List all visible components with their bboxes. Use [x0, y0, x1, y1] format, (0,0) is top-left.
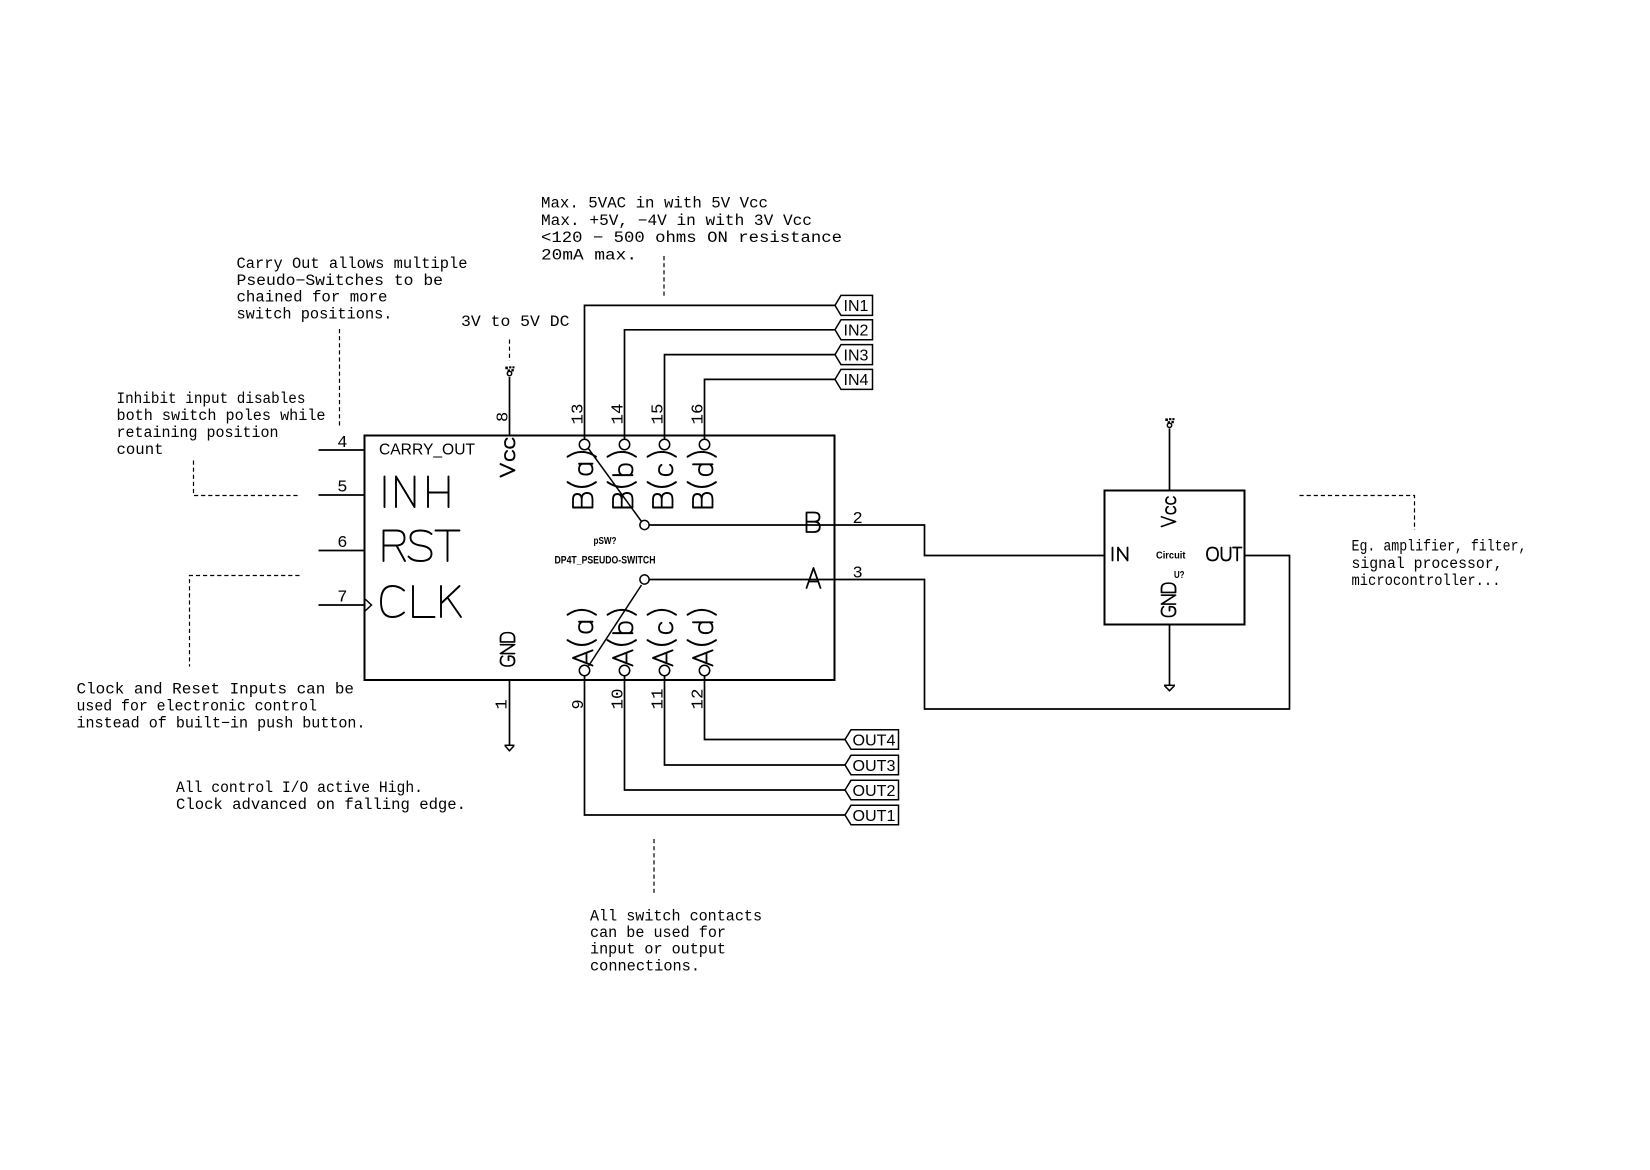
svg-text:used for electronic control: used for electronic control	[77, 698, 318, 716]
pin number 4	[337, 434, 347, 453]
svg-text:12: 12	[690, 689, 709, 710]
pin name GND (U?)	[1162, 583, 1176, 616]
switch pole B diagonal	[588, 448, 642, 522]
pin number 12	[690, 689, 709, 710]
svg-text:instead of built−in push butto: instead of built−in push button.	[77, 715, 366, 733]
svg-text:1: 1	[494, 699, 513, 709]
leader dashed line from 3V to 5V DC note to Vcc symbol	[509, 340, 511, 362]
svg-text:10: 10	[610, 689, 629, 710]
pin name B(c)	[648, 452, 677, 508]
svg-text:4: 4	[337, 434, 347, 453]
net label OUT2	[845, 780, 899, 800]
pin number 14	[610, 404, 629, 425]
svg-text:CARRY_OUT: CARRY_OUT	[379, 442, 475, 459]
value Circuit	[1156, 550, 1186, 562]
svg-text:20mA max.: 20mA max.	[541, 247, 637, 265]
svg-text:14: 14	[610, 404, 629, 425]
ground symbol (U?)	[1164, 685, 1175, 691]
pin number 8	[495, 412, 514, 422]
pin name B(a)	[568, 452, 597, 508]
svg-text:switch positions.: switch positions.	[237, 306, 393, 324]
pin name Vcc	[501, 439, 515, 477]
svg-text:Max. 5VAC in with 5V Vcc: Max. 5VAC in with 5V Vcc	[541, 195, 768, 213]
svg-text:Max. +5V, −4V in with 3V Vcc: Max. +5V, −4V in with 3V Vcc	[541, 212, 812, 230]
switch pole A contact circle	[640, 575, 649, 584]
pin name CLK	[381, 586, 461, 617]
clock input triangle	[365, 599, 372, 612]
svg-text:13: 13	[570, 404, 589, 425]
svg-text:8: 8	[495, 412, 514, 422]
reference U?	[1174, 569, 1185, 581]
svg-text:16: 16	[690, 404, 709, 425]
switch pole B contact circle	[640, 520, 649, 529]
pin name OUT	[1207, 548, 1242, 561]
reference pSW?	[594, 536, 617, 547]
note: All control IO text	[176, 779, 466, 814]
svg-text:both switch poles while: both switch poles while	[117, 407, 326, 425]
svg-text:Eg. amplifier, filter,: Eg. amplifier, filter,	[1352, 538, 1527, 556]
svg-text:3V to 5V DC: 3V to 5V DC	[461, 313, 570, 331]
svg-text:connections.: connections.	[590, 958, 700, 976]
net label IN1	[835, 295, 873, 315]
pin name A(b)	[608, 610, 637, 666]
svg-text:retaining position: retaining position	[117, 424, 279, 442]
pin 6 wire RST	[319, 550, 365, 552]
svg-text:6: 6	[337, 534, 347, 553]
note: Max ratings text	[541, 195, 842, 265]
pin 1 wire GND	[509, 680, 511, 745]
svg-text:Clock and Reset Inputs can be: Clock and Reset Inputs can be	[77, 681, 355, 699]
svg-text:Carry Out allows multiple: Carry Out allows multiple	[237, 255, 468, 273]
svg-text:signal processor,: signal processor,	[1352, 555, 1503, 573]
GND pin wire (U?)	[1169, 625, 1171, 686]
svg-text:pSW?: pSW?	[594, 536, 617, 547]
svg-text:IN3: IN3	[844, 347, 869, 364]
leader dashed line from U? box to Eg note	[1300, 496, 1415, 531]
pin name RST	[384, 531, 460, 562]
svg-text:chained for more: chained for more	[237, 289, 388, 307]
net label IN4	[835, 369, 873, 389]
pin number 2	[853, 510, 863, 529]
pin 9 wire to OUT1	[585, 675, 846, 815]
net label OUT4	[845, 730, 899, 750]
Vcc pin wire (U?)	[1169, 429, 1171, 491]
pin 13 wire to IN1	[585, 305, 836, 439]
power symbol Vcc (U?)	[1165, 418, 1174, 427]
leader dashed line from pin 6/7 to Clock and Reset note	[190, 576, 300, 667]
pin name IN	[1113, 548, 1128, 561]
svg-text:IN4: IN4	[844, 372, 869, 389]
pin 15 wire to IN3	[665, 355, 836, 440]
svg-text:U?: U?	[1174, 569, 1185, 581]
note: Eg amplifier text	[1352, 538, 1527, 591]
svg-text:input or output: input or output	[590, 941, 726, 959]
net label OUT1	[845, 805, 899, 825]
pin 12 wire to OUT4	[705, 675, 846, 739]
svg-text:Pseudo−Switches to be: Pseudo−Switches to be	[237, 272, 444, 290]
svg-text:5: 5	[337, 479, 347, 498]
pin 2 wire B to IN of U?	[649, 525, 1104, 556]
svg-text:OUT3: OUT3	[853, 758, 896, 775]
pin 16 wire to IN4	[705, 379, 836, 439]
pin 10 wire to OUT2	[625, 675, 846, 790]
svg-text:Circuit: Circuit	[1156, 550, 1186, 562]
note: Carry Out text	[237, 255, 468, 324]
svg-text:9: 9	[570, 699, 589, 709]
pin name B(b)	[608, 452, 637, 508]
pin 7 wire CLK	[319, 604, 365, 606]
pin name B(d)	[688, 452, 717, 508]
net label IN2	[835, 320, 873, 340]
svg-text:OUT4: OUT4	[853, 732, 896, 749]
svg-text:count: count	[117, 441, 164, 459]
pin number 7	[337, 589, 347, 608]
note: Inhibit input text	[117, 390, 326, 459]
svg-text:OUT1: OUT1	[853, 808, 896, 825]
ground symbol (pin 1)	[505, 745, 515, 751]
leader dashed line from Max ratings note	[663, 256, 665, 296]
svg-text:All control I/O active High.: All control I/O active High.	[176, 779, 423, 797]
net label OUT3	[845, 755, 899, 775]
pin name A	[807, 568, 821, 588]
pin number 3	[853, 565, 863, 584]
net label IN3	[835, 345, 873, 365]
pin number 9	[570, 699, 589, 709]
switch contact circle B(d)	[699, 439, 709, 449]
pin name Vcc (U?)	[1162, 497, 1176, 526]
svg-text:7: 7	[337, 589, 347, 608]
svg-text:3: 3	[853, 565, 863, 584]
pin number 13	[570, 404, 589, 425]
svg-text:11: 11	[650, 689, 669, 710]
pin number 10	[610, 689, 629, 710]
IC U? Circuit body	[1105, 491, 1245, 625]
svg-text:All switch contacts: All switch contacts	[590, 908, 762, 926]
pin number 15	[650, 404, 669, 425]
svg-text:can be used for: can be used for	[590, 924, 726, 942]
pin number 16	[690, 404, 709, 425]
switch pole A diagonal	[589, 585, 642, 666]
note: 3V to 5V DC text	[461, 313, 570, 331]
pin number 6	[337, 534, 347, 553]
pin name A(c)	[648, 610, 677, 666]
svg-text:15: 15	[650, 404, 669, 425]
pin 3 wire A to OUT loop	[649, 556, 1289, 710]
pin name GND	[501, 633, 515, 666]
svg-text:IN1: IN1	[844, 298, 869, 315]
switch contact circle B(b)	[619, 439, 629, 449]
switch contact circle B(c)	[659, 439, 669, 449]
svg-text:<120 − 500 ohms ON resistance: <120 − 500 ohms ON resistance	[541, 229, 842, 247]
note: All switch contacts text	[590, 908, 762, 976]
svg-text:Inhibit input disables: Inhibit input disables	[117, 390, 306, 408]
svg-text:DP4T_PSEUDO-SWITCH: DP4T_PSEUDO-SWITCH	[555, 555, 656, 567]
pin name A(a)	[568, 610, 597, 666]
pin number 5	[337, 479, 347, 498]
leader dashed line from Carry Out note to pin 4	[339, 329, 341, 426]
value DP4T_PSEUDO-SWITCH	[555, 555, 656, 567]
svg-text:2: 2	[853, 510, 863, 529]
pin name B	[807, 513, 820, 533]
svg-text:Clock advanced on falling edge: Clock advanced on falling edge.	[176, 796, 466, 814]
switch contact circle B(a)	[579, 439, 589, 449]
pin 5 wire INH	[319, 494, 365, 496]
power symbol Vcc (pin 8)	[505, 366, 514, 375]
switch contact circle A(c)	[659, 665, 669, 675]
svg-text:IN2: IN2	[844, 323, 869, 340]
leader dashed line from OUT wires to All switch contacts note	[653, 839, 655, 894]
note: Clock and Reset text	[77, 681, 366, 733]
IC pSW? DP4T_PSEUDO-SWITCH body	[365, 436, 835, 681]
switch contact circle A(d)	[699, 665, 709, 675]
switch contact circle A(a)	[579, 665, 589, 675]
svg-text:microcontroller...: microcontroller...	[1352, 572, 1501, 590]
pin number 11	[650, 689, 669, 710]
pin 8 wire Vcc	[509, 377, 511, 436]
pin 14 wire to IN2	[625, 330, 836, 440]
switch contact circle A(b)	[619, 665, 629, 675]
pin number 1	[494, 699, 513, 709]
pin name A(d)	[688, 610, 717, 666]
pin name CARRY_OUT	[379, 442, 475, 459]
pin 11 wire to OUT3	[665, 675, 846, 765]
pin name INH	[385, 477, 449, 508]
svg-text:OUT2: OUT2	[853, 783, 896, 800]
pin 4 wire CARRY_OUT	[319, 449, 365, 451]
leader dashed line from Inhibit note to pin 5	[194, 461, 300, 496]
